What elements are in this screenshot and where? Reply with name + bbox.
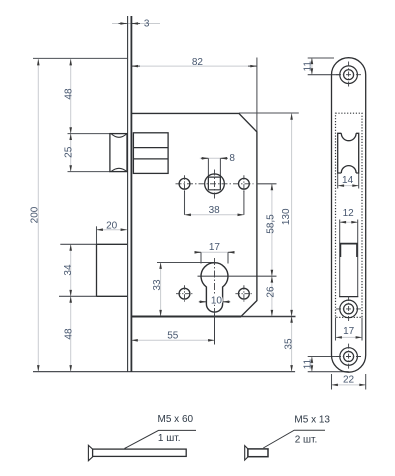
dimension 3 line bbox=[38, 24, 365, 385]
dimension 17 plate line bbox=[336, 336, 363, 338]
cylinder centerline bbox=[214, 258, 216, 314]
lock case bottom edge bbox=[131, 316, 241, 318]
extension line cylinder right for 17 bbox=[227, 252, 229, 263]
faceplate strip side view bbox=[127, 16, 129, 372]
svg-text:34: 34 bbox=[63, 264, 74, 276]
extension line top screw axis for 11 bbox=[308, 74, 340, 76]
dimension 130 line bbox=[291, 113, 293, 316]
dimension 35 line bbox=[291, 316, 293, 371]
svg-text:17: 17 bbox=[209, 242, 221, 253]
extension line pocket top bbox=[60, 243, 96, 245]
pocket on strip lower bbox=[96, 244, 98, 296]
arrow stubs: dim 10 bbox=[199, 301, 206, 303]
dimension 11 bottom line bbox=[311, 357, 313, 372]
extension line plate bottom for 11 bbox=[308, 371, 349, 373]
svg-text:22: 22 bbox=[343, 374, 355, 385]
extension line bottom of faceplate bbox=[33, 371, 295, 373]
extension line case right for 82 bbox=[256, 58, 258, 132]
arrow stubs: dim 17 cylinder bbox=[195, 251, 201, 253]
svg-text:M5 x 13: M5 x 13 bbox=[294, 414, 330, 425]
extension line right hole to 38 bbox=[243, 191, 245, 215]
svg-text:12: 12 bbox=[343, 208, 355, 219]
svg-text:82: 82 bbox=[192, 57, 204, 68]
svg-text:3: 3 bbox=[144, 18, 150, 29]
dimension 14 line bbox=[338, 185, 359, 187]
holes row centerline bbox=[176, 183, 254, 185]
dimension 38 line bbox=[185, 214, 244, 216]
extension line footprint left for 17 bbox=[335, 317, 337, 340]
dimension 22 line bbox=[332, 384, 366, 386]
extension line pocket bottom bbox=[59, 295, 97, 297]
screw M5x60 head bbox=[88, 445, 92, 460]
dotted case footprint on plate bbox=[336, 113, 363, 317]
extension line cylinder top for 33 bbox=[157, 262, 214, 264]
dimension 48 bottom line bbox=[70, 296, 72, 371]
dimension 25 line bbox=[70, 134, 72, 172]
svg-text:11: 11 bbox=[302, 61, 313, 72]
extension line plate right for 22 bbox=[365, 374, 367, 390]
svg-text:33: 33 bbox=[152, 279, 163, 291]
svg-text:200: 200 bbox=[30, 206, 41, 223]
extension line latch top bbox=[68, 133, 111, 135]
dimension 55 line bbox=[131, 339, 214, 341]
dimension 11 top line bbox=[311, 58, 313, 75]
svg-text:58,5: 58,5 bbox=[266, 214, 277, 234]
follower square bbox=[208, 177, 220, 190]
svg-text:25: 25 bbox=[63, 146, 74, 158]
arrow stubs: dim 3 bbox=[119, 24, 257, 302]
extension line footprint right for 17 bbox=[361, 317, 363, 340]
extension line pocket left for 20 bbox=[96, 226, 98, 244]
screw M5x60 shaft bbox=[93, 449, 187, 456]
extension line latch opening left for 14 bbox=[337, 173, 339, 188]
extension line case top for 130 bbox=[239, 112, 299, 114]
plate screw hole middle bbox=[336, 296, 361, 322]
screw M5x60 leader bbox=[125, 430, 197, 448]
deadbolt opening left side bbox=[339, 220, 341, 297]
svg-text:2 шт.: 2 шт. bbox=[295, 434, 318, 445]
dimension 82 line bbox=[131, 65, 257, 67]
screw hole upper right bbox=[239, 178, 250, 189]
extension line bottom screw axis for 11 bbox=[308, 356, 340, 358]
deadbolt opening right side bbox=[357, 220, 359, 297]
extension line cylinder axis for 26 bbox=[198, 275, 277, 277]
arrow stubs: dim 8 bbox=[201, 157, 208, 159]
extension line top of lock body bbox=[33, 57, 127, 59]
svg-text:17: 17 bbox=[343, 326, 355, 337]
dimension 17 cylinder line bbox=[195, 251, 235, 253]
svg-text:8: 8 bbox=[229, 153, 235, 164]
plate screw hole bottom bbox=[336, 344, 361, 370]
svg-text:55: 55 bbox=[167, 330, 179, 341]
extension line latch bottom bbox=[68, 171, 111, 173]
dimension 33 line bbox=[160, 263, 162, 317]
dimension 58,5 line bbox=[271, 184, 273, 276]
dimension 26 line bbox=[271, 276, 273, 316]
svg-text:1 шт.: 1 шт. bbox=[158, 433, 181, 444]
follower circle bbox=[205, 174, 225, 194]
lock case outline bbox=[131, 113, 257, 316]
svg-text:48: 48 bbox=[63, 328, 74, 340]
strike plate front view bbox=[332, 58, 366, 373]
screw hole lower left bbox=[179, 288, 190, 299]
svg-text:48: 48 bbox=[63, 88, 74, 100]
screw hole upper left bbox=[179, 178, 190, 189]
follower centerlines bbox=[214, 170, 216, 199]
arrow stubs: dim 82 bbox=[132, 65, 140, 67]
svg-text:10: 10 bbox=[211, 296, 223, 307]
extension line follower square right bbox=[219, 158, 221, 190]
screw hole lower right bbox=[239, 288, 250, 299]
extension line follower axis for 58,5 bbox=[258, 183, 277, 185]
extension line left hole to 38 bbox=[184, 191, 186, 215]
dimension 20 line bbox=[97, 229, 128, 231]
svg-text:14: 14 bbox=[342, 175, 354, 186]
svg-text:38: 38 bbox=[209, 205, 221, 216]
latch block inside case bbox=[133, 133, 168, 174]
svg-text:20: 20 bbox=[106, 221, 118, 232]
latch bolt left of faceplate bbox=[110, 134, 127, 172]
latch opening in plate bbox=[341, 133, 356, 173]
extension lines bbox=[33, 58, 366, 390]
extension line cylinder left for 17 bbox=[200, 252, 202, 263]
dimension 34 line bbox=[70, 244, 72, 296]
screw M5x13 head bbox=[245, 446, 248, 461]
extension line follower square left bbox=[207, 158, 209, 190]
svg-text:26: 26 bbox=[266, 286, 277, 298]
svg-text:35: 35 bbox=[283, 338, 294, 350]
dimension 48 top line bbox=[70, 59, 72, 134]
svg-text:11: 11 bbox=[302, 358, 313, 369]
svg-text:130: 130 bbox=[281, 208, 292, 225]
extension line plate top for 11 bbox=[308, 57, 334, 59]
screw M5x13 leader bbox=[263, 430, 325, 448]
deadbolt opening in plate bbox=[339, 296, 358, 298]
extension line latch opening right for 14 bbox=[358, 173, 360, 188]
dimension 200 line bbox=[37, 59, 39, 372]
dimension texts bbox=[30, 18, 355, 445]
extension line plate left for 22 bbox=[331, 374, 333, 390]
svg-text:M5 x 60: M5 x 60 bbox=[158, 414, 194, 425]
screw M5x13 shaft bbox=[248, 449, 268, 457]
euro cylinder keyhole bbox=[201, 263, 228, 312]
dimension 12 line bbox=[340, 221, 358, 223]
plate screw hole top bbox=[336, 62, 361, 89]
dimension 8 line bbox=[200, 157, 227, 159]
